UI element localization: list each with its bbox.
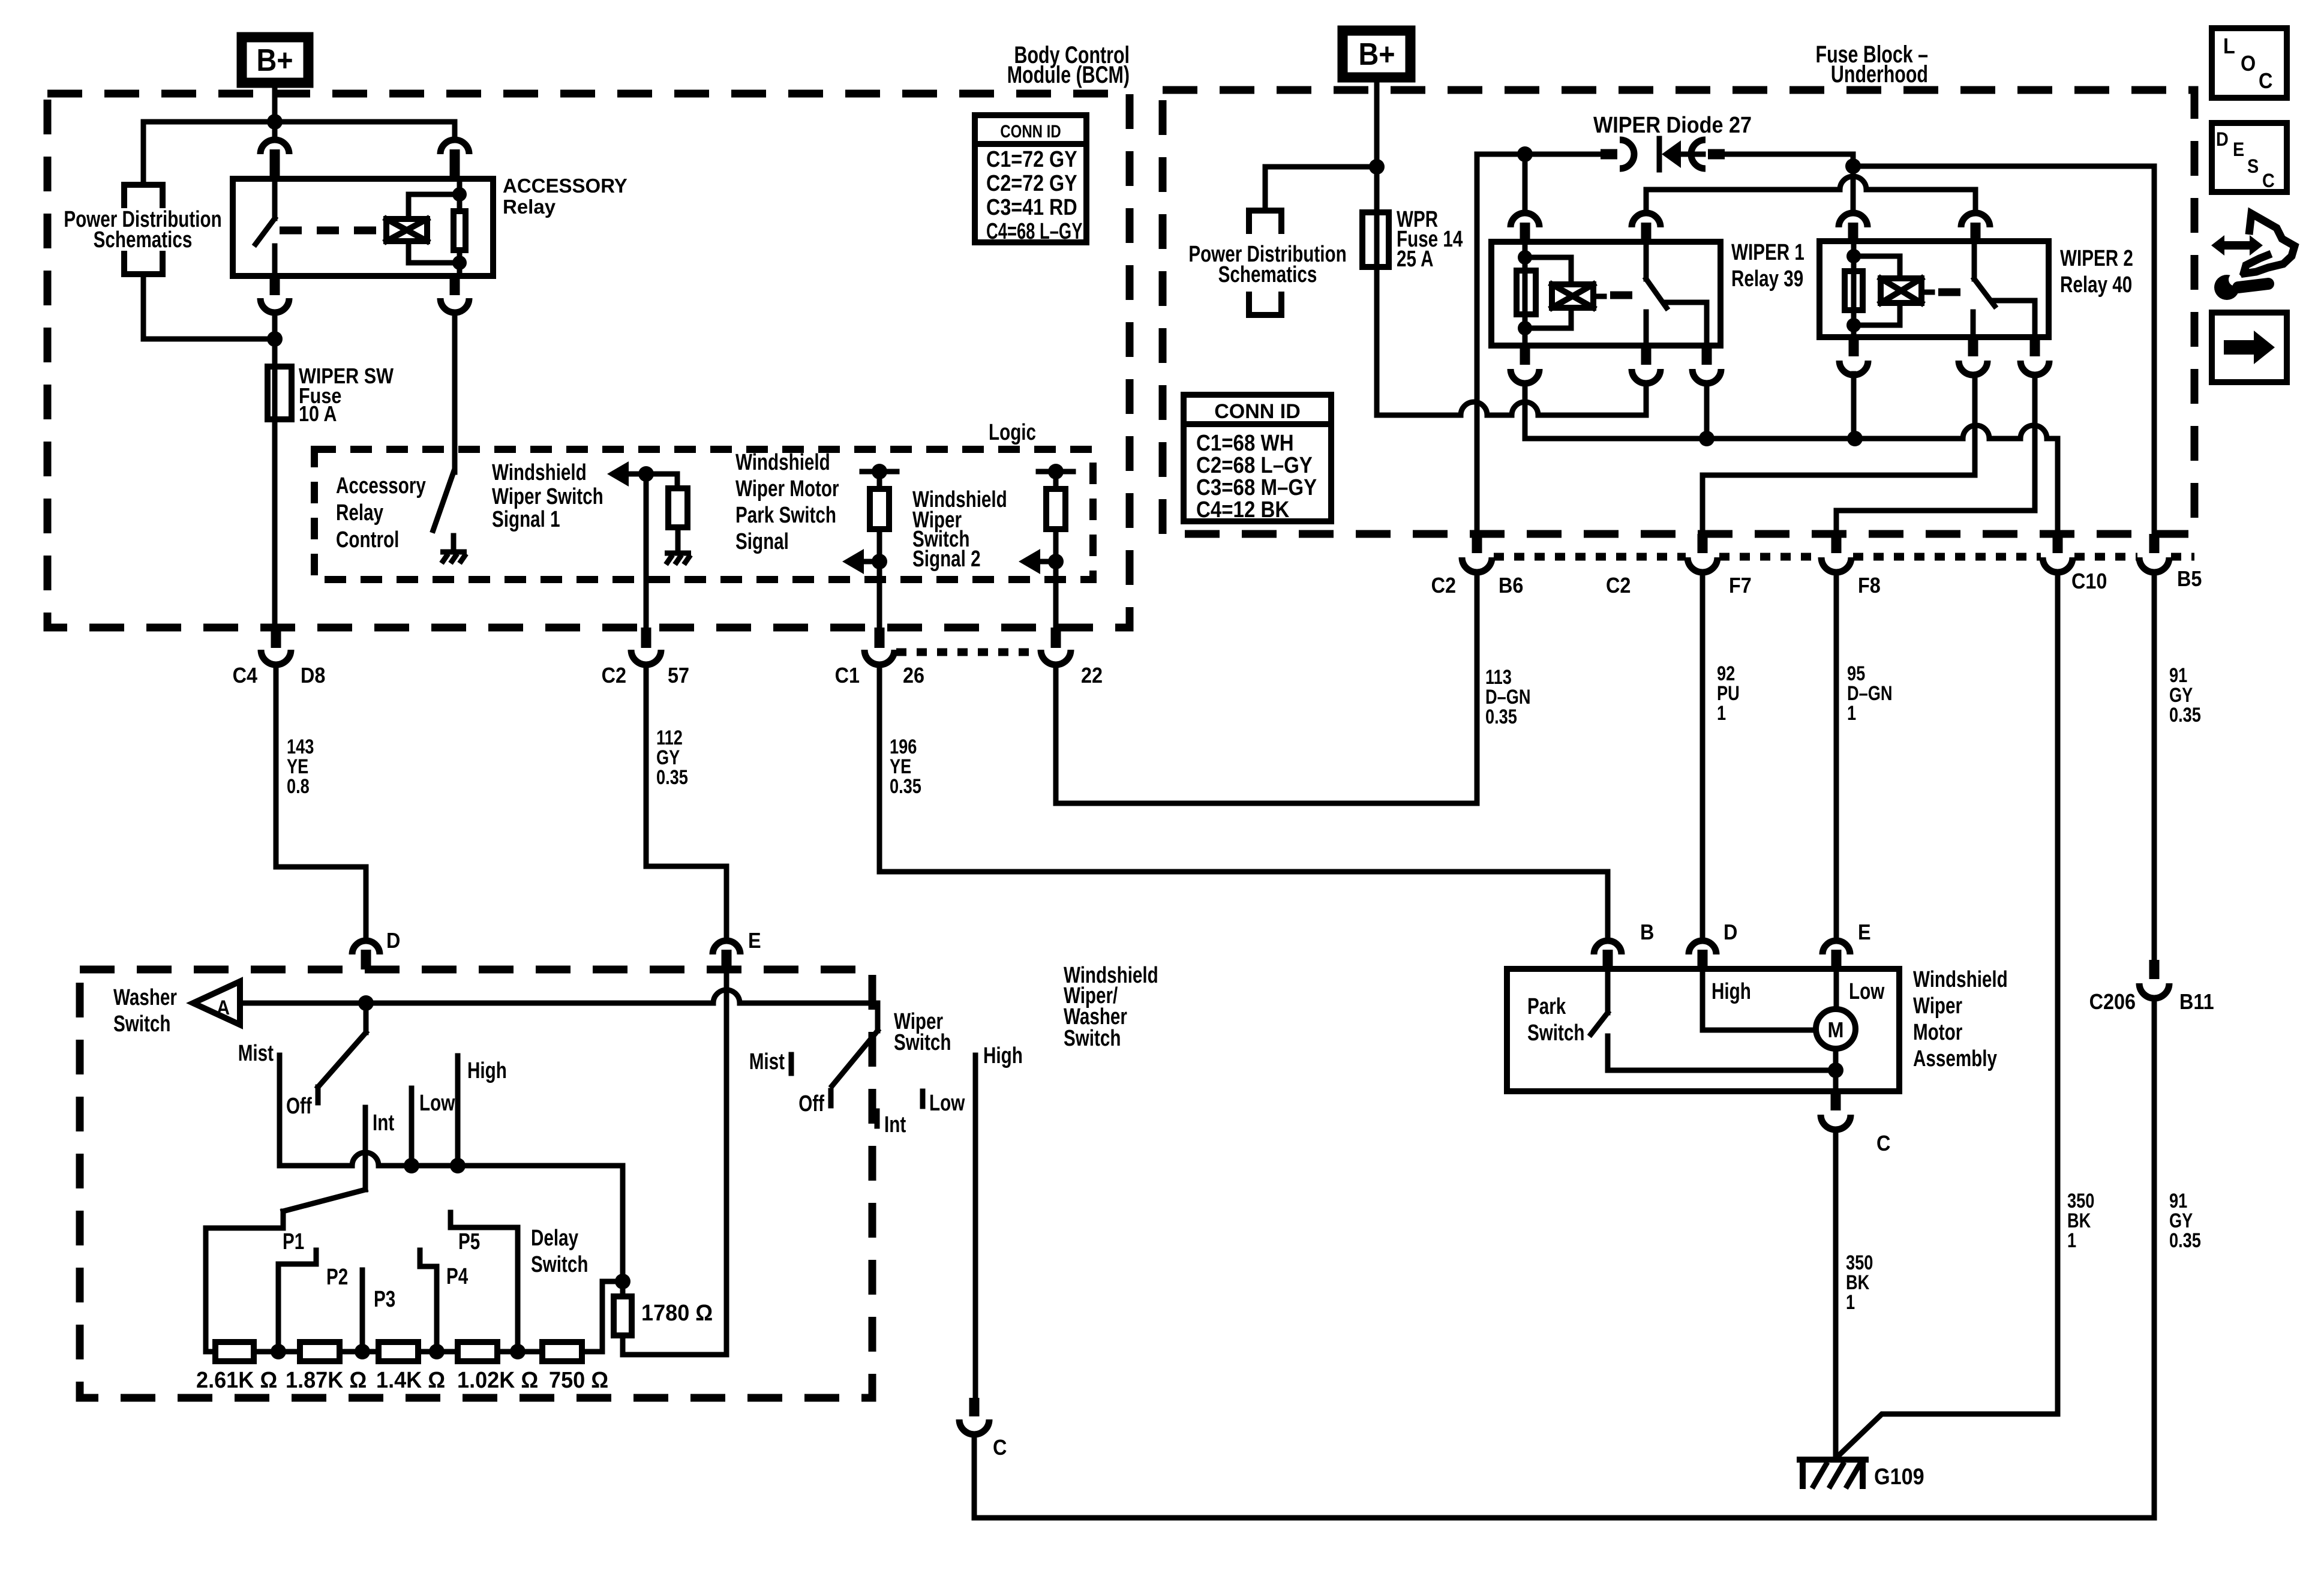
ground accessory relay control <box>440 552 467 563</box>
wire WPR fuse to relay39 switch common <box>1374 267 1380 415</box>
svg-text:Switch: Switch <box>113 1011 170 1037</box>
svg-text:C1: C1 <box>835 664 860 688</box>
svg-text:P5: P5 <box>458 1229 480 1254</box>
wire relay39 switch feed line <box>1646 187 1840 193</box>
node junction relay39 output on bus <box>1699 431 1715 446</box>
power symbol B+ (battery feed, right) <box>1343 31 1410 77</box>
contact P1 hook <box>278 1250 316 1352</box>
svg-text:E: E <box>748 929 761 953</box>
connector D above switch <box>352 941 380 954</box>
pull-up circuit pin 22 top bar <box>1038 469 1073 475</box>
svg-text:Washer: Washer <box>113 985 177 1010</box>
svg-text:Mist: Mist <box>749 1049 785 1074</box>
wire 350 BK 1 from motor C to ground G109 <box>1833 1130 1839 1458</box>
wire motor to C connector <box>1833 1049 1839 1091</box>
accessory relay coil <box>386 219 427 241</box>
svg-text:C2: C2 <box>1431 574 1456 598</box>
svg-text:Signal 1: Signal 1 <box>492 507 560 532</box>
svg-text:G109: G109 <box>1874 1463 1924 1489</box>
svg-text:B5: B5 <box>2177 567 2202 591</box>
svg-text:Wiper Switch: Wiper Switch <box>492 484 603 509</box>
contact Int (right) <box>875 1111 880 1126</box>
resistor 2.61K ladder R1 <box>206 1349 215 1355</box>
node junction pin 22 top <box>1048 464 1064 479</box>
connector pin arcs below relay39 <box>1520 346 1530 365</box>
svg-text:WIPER 2: WIPER 2 <box>2060 246 2133 271</box>
node junction pin 22 arrow <box>1048 554 1064 569</box>
svg-text:D: D <box>1724 920 1737 944</box>
contact Mist (right) <box>789 1055 794 1073</box>
wire right branch to relay coil pin <box>452 122 458 140</box>
svg-text:1.02K Ω: 1.02K Ω <box>457 1367 538 1392</box>
resistor BCM pull-up pin 57 <box>668 488 687 527</box>
connector half left of diode (right side) <box>1691 140 1706 169</box>
connector C10 at fuse block bottom <box>2053 534 2063 553</box>
resistor relay40 coil suppression <box>1845 271 1863 310</box>
wire C10 branch joining ground <box>1837 1414 2058 1457</box>
fuse WPR Fuse 14 25 A <box>1374 167 1380 212</box>
relay WIPER 1 Relay 39 box <box>1491 242 1721 346</box>
svg-text:C2: C2 <box>1606 574 1631 598</box>
relay40 switch <box>1972 241 1977 279</box>
svg-text:C: C <box>2262 170 2275 192</box>
svg-text:C1=72 GY: C1=72 GY <box>986 147 1077 172</box>
fuse WIPER SW 10 A <box>272 339 278 628</box>
contact Low (left) <box>409 1088 415 1166</box>
node junction pin 26 arrow <box>872 554 887 569</box>
svg-text:C: C <box>1876 1131 1890 1155</box>
connector table CONN ID for fuse block <box>1184 395 1331 521</box>
wire ground bus to C10 <box>1525 436 1963 442</box>
svg-text:P4: P4 <box>446 1264 468 1289</box>
relay39 switch <box>1644 242 1649 279</box>
svg-text:CONN ID: CONN ID <box>1000 121 1061 141</box>
contact Int (left) <box>363 1107 368 1190</box>
ground G109 <box>1800 1460 1866 1486</box>
wire Low feed to motor <box>1834 969 1839 1009</box>
svg-text:0.35: 0.35 <box>656 766 688 789</box>
svg-text:B6: B6 <box>1499 574 1523 598</box>
connector pin arc above relay39 switch <box>1632 213 1661 227</box>
relay40 switch output elbow <box>1993 301 2035 337</box>
connector E above switch <box>713 941 740 954</box>
connector row dotted line C1 to 22 <box>896 649 1039 656</box>
accessory relay control dashed link <box>280 227 382 235</box>
node junction relay39 coil bottom <box>1518 321 1532 335</box>
svg-text:1: 1 <box>1847 701 1856 725</box>
node junction D wire and washer line <box>358 995 374 1011</box>
svg-text:P3: P3 <box>374 1287 395 1312</box>
module box Windshield Wiper Motor Assembly <box>1507 969 1899 1091</box>
node junction relay39 coil feed on diode line <box>1517 146 1533 162</box>
svg-text:C206: C206 <box>2089 990 2136 1014</box>
svg-text:Schematics: Schematics <box>1218 262 1317 287</box>
wire High feed inside motor assembly <box>1703 969 1816 1030</box>
svg-text:22: 22 <box>1081 664 1103 688</box>
svg-text:0.35: 0.35 <box>1485 705 1517 728</box>
svg-text:B11: B11 <box>2179 990 2214 1014</box>
svg-text:F8: F8 <box>1858 574 1881 598</box>
resistor 750 ladder R5 <box>542 1342 582 1361</box>
off-page bracket top - Power Distribution (right) <box>1249 211 1281 231</box>
svg-text:C2: C2 <box>602 664 626 688</box>
relay40 coil <box>1854 256 1900 325</box>
svg-text:1.87K Ω: 1.87K Ω <box>286 1367 367 1392</box>
wire relay39 output to bus <box>1704 383 1710 439</box>
svg-text:High: High <box>983 1043 1023 1068</box>
svg-text:Relay 40: Relay 40 <box>2060 272 2132 298</box>
svg-text:Assembly: Assembly <box>1913 1046 1997 1071</box>
node junction relay39 coil top <box>1518 250 1532 265</box>
svg-text:B: B <box>1640 920 1654 944</box>
wire vertical from diode line to B6 connector <box>1475 154 1480 544</box>
svg-text:26: 26 <box>903 664 924 688</box>
wire 92 PU 1 from F7 to connector D of motor <box>1700 572 1706 941</box>
wire switch C output along bottom to B11 <box>974 1434 2154 1518</box>
svg-text:Mist: Mist <box>238 1041 274 1066</box>
svg-text:Park: Park <box>1527 994 1566 1019</box>
svg-text:B+: B+ <box>256 43 293 78</box>
svg-text:0.8: 0.8 <box>287 775 310 798</box>
wire 113 D-GN 0.35 from pin 22 to fuse block B6 <box>1056 572 1477 803</box>
connector table CONN ID for BCM <box>975 115 1086 242</box>
node junction pin 26 top <box>872 464 887 479</box>
svg-text:Switch: Switch <box>531 1252 588 1277</box>
svg-text:Motor: Motor <box>1913 1020 1962 1045</box>
resistor BCM pull-up pin 22 <box>1053 472 1059 489</box>
svg-text:Accessory: Accessory <box>336 473 426 499</box>
wire coil elbows to resistor <box>409 194 460 263</box>
connector E above motor assembly <box>1822 941 1850 954</box>
node junction P2 <box>340 1349 379 1355</box>
connector C2/57 at BCM bottom <box>641 628 651 648</box>
off-page bracket bottom - Power Distribution (right) <box>1249 295 1281 315</box>
svg-text:Off: Off <box>286 1094 312 1119</box>
node junction relay40 coil top <box>1846 249 1861 263</box>
svg-text:C4=68 L–GY: C4=68 L–GY <box>986 219 1082 244</box>
svg-text:Int: Int <box>884 1112 906 1137</box>
connector B5 at fuse block bottom <box>2149 534 2160 553</box>
contact P5 hook <box>451 1212 518 1352</box>
wire 1780 bottom to E line <box>623 1352 726 1358</box>
svg-text:Low: Low <box>1849 979 1885 1004</box>
node junction P4 <box>497 1349 542 1355</box>
wire park switch to motor low node <box>1608 1068 1836 1073</box>
svg-text:Switch: Switch <box>1527 1020 1584 1046</box>
svg-text:C: C <box>993 1436 1007 1460</box>
connector pin arc above relay40 coil <box>1839 213 1867 227</box>
contact High bar (right) down to C <box>973 1055 978 1398</box>
wire 112 GY 0.35 from C2/57 to connector E <box>646 665 726 941</box>
wire junction to B5 drop <box>1853 166 2154 544</box>
connector C4/D8 at BCM bottom <box>271 628 281 648</box>
switch box Windshield Wiper/Washer Switch dashed outline <box>80 969 872 1398</box>
node junction resistor bottom <box>452 256 467 270</box>
svg-text:Relay: Relay <box>503 196 556 218</box>
off-page triangle A to Washer Switch <box>193 981 240 1025</box>
connector C2/F7 at fuse block bottom <box>1698 534 1708 553</box>
contact Off (right) <box>828 1091 834 1106</box>
svg-text:750 Ω: 750 Ω <box>549 1367 608 1392</box>
off-page bracket top - Power Distribution (left) <box>124 185 163 205</box>
svg-text:0.35: 0.35 <box>2169 1229 2201 1252</box>
wire E line vertical through switch <box>724 969 729 1355</box>
relay WIPER 2 Relay 40 box <box>1819 241 2049 337</box>
wire 350 BK 1 from C10 down to ground splice <box>2055 572 2061 1414</box>
connector C at switch bottom <box>969 1398 980 1416</box>
svg-text:C2=72 GY: C2=72 GY <box>986 171 1077 196</box>
svg-text:B+: B+ <box>1358 37 1395 72</box>
connector F8 at fuse block bottom <box>1831 534 1842 553</box>
svg-text:Switch: Switch <box>1064 1026 1121 1051</box>
diode WIPER Diode 27 (cathode bar and arrow) <box>1657 139 1662 170</box>
wire B+ down to junction <box>272 83 278 122</box>
svg-text:Schematics: Schematics <box>94 227 193 253</box>
node junction diode output <box>1845 158 1861 174</box>
sidebar icon LOC box <box>2212 28 2287 98</box>
svg-text:ACCESSORY: ACCESSORY <box>503 175 627 197</box>
wire delay blade contact to ladder start <box>206 1228 283 1352</box>
svg-text:1: 1 <box>1717 701 1726 725</box>
svg-text:WIPER Diode 27: WIPER Diode 27 <box>1593 112 1752 137</box>
svg-text:D: D <box>386 929 400 953</box>
resistor relay39 coil suppression <box>1517 271 1536 314</box>
relay39 switch output elbow <box>1665 302 1707 346</box>
contact High (left) <box>455 1056 461 1166</box>
svg-text:Wiper: Wiper <box>1913 993 1962 1019</box>
svg-text:S: S <box>2247 156 2259 178</box>
svg-text:P2: P2 <box>326 1265 348 1290</box>
svg-text:2.61K Ω: 2.61K Ω <box>196 1367 277 1392</box>
wire down to relay40 switch pin <box>1973 190 1978 213</box>
node junction below B+ (left) <box>267 114 283 130</box>
svg-text:D: D <box>2216 129 2229 151</box>
resistor 1.87K ladder R2 <box>300 1342 340 1361</box>
wire 91 GY 0.35 from B11 down to bottom bus <box>2152 998 2157 1518</box>
wire relay40 coil low to bus <box>1851 374 1857 439</box>
wire branch to power distribution bracket (right) <box>1265 167 1377 211</box>
svg-text:Relay 39: Relay 39 <box>1731 266 1803 292</box>
signal arrow wiper switch signal 1 <box>607 461 629 487</box>
svg-text:Switch: Switch <box>894 1030 951 1055</box>
node junction High on bus <box>450 1158 466 1173</box>
contact P3 hook <box>420 1250 437 1352</box>
relay39 coil dashed link <box>1593 294 1604 299</box>
node junction relay40 coil bottom <box>1846 318 1861 332</box>
ground BCM pin 57 pull-up <box>665 553 691 565</box>
connector C2/B6 at fuse block bottom <box>1472 534 1482 553</box>
relay39 coil <box>1525 257 1571 328</box>
connector B above motor assembly <box>1594 941 1622 954</box>
svg-text:E: E <box>2233 139 2244 161</box>
relay ACCESSORY Relay box <box>233 179 493 276</box>
resistor 1.02K ladder R4 <box>458 1342 497 1361</box>
switch Accessory Relay Control <box>433 472 454 530</box>
wire 143 YE 0.8 from C4/D8 to connector D <box>276 665 366 941</box>
relay40 coil pin vertical <box>1851 241 1857 337</box>
sidebar icon hand with wrench <box>2211 235 2263 256</box>
relay39 coil pin vertical <box>1523 242 1528 346</box>
svg-text:Underhood: Underhood <box>1831 61 1928 88</box>
wire 196 YE 0.35 from C1/26 to connector B <box>879 665 1608 940</box>
connector pin arc above relay39 coil <box>1511 213 1539 227</box>
connector C below motor assembly <box>1831 1091 1841 1110</box>
connector 22 at BCM bottom <box>1051 628 1061 648</box>
wire relay coil low to accessory relay control switch <box>452 313 458 472</box>
node junction relay40 coil low on bus <box>1847 431 1863 446</box>
svg-text:25 A: 25 A <box>1397 247 1433 272</box>
wire relay40 output 1 to F7 <box>1703 375 1975 544</box>
svg-text:P1: P1 <box>283 1229 304 1254</box>
node junction pin 57 pull-up <box>638 466 654 482</box>
svg-text:C10: C10 <box>2071 569 2107 593</box>
svg-text:F7: F7 <box>1729 574 1752 598</box>
off-page bracket bottom - Power Distribution (left) <box>124 254 163 274</box>
svg-text:CONN ID: CONN ID <box>1214 400 1301 423</box>
connector row dotted line at fuse block bottom <box>1494 553 1686 561</box>
node junction P1 <box>254 1349 300 1355</box>
connector half right of diode (left side) <box>1601 149 1617 160</box>
wire relay coil pin vertical <box>457 179 463 276</box>
wire branch down to power distribution bracket <box>141 122 146 185</box>
wire feed bus to relay pins <box>143 119 455 125</box>
svg-text:Logic: Logic <box>989 420 1036 445</box>
svg-text:1: 1 <box>2067 1229 2076 1252</box>
node junction Low on bus <box>404 1158 419 1173</box>
module box Body Control Module dashed outline <box>47 94 1130 628</box>
svg-text:Low: Low <box>929 1091 965 1116</box>
svg-text:C3=41 RD: C3=41 RD <box>986 195 1077 220</box>
power symbol B+ (battery feed, left) <box>242 37 308 83</box>
wire relay39 coil feed down <box>1523 154 1528 213</box>
wire down to relay39 switch pin <box>1644 190 1649 213</box>
svg-text:0.35: 0.35 <box>2169 703 2201 727</box>
svg-text:Windshield: Windshield <box>492 460 587 485</box>
node junction P3 <box>418 1349 458 1355</box>
svg-text:O: O <box>2241 52 2256 76</box>
svg-text:Park Switch: Park Switch <box>735 503 836 528</box>
wire B+ down to junction <box>1374 77 1380 167</box>
wire relay39 coil low to ground bus <box>1523 383 1528 439</box>
svg-text:Windshield: Windshield <box>1913 967 2008 992</box>
node junction below B+ (right) <box>1369 159 1385 175</box>
resistor accessory relay coil suppression <box>454 211 466 250</box>
resistor 1.4K ladder R3 <box>379 1342 418 1361</box>
logic box dashed outline <box>314 449 1093 580</box>
wire common bus of left wiper switch <box>280 1163 352 1169</box>
wire 91 GY 0.35 from B5 down to C206/B11 <box>2152 572 2157 960</box>
switch blade from D (left wiper switch) <box>364 1003 369 1032</box>
signal arrow wiper switch signal 2 pin 26 <box>864 559 879 565</box>
connector pin arc above accessory relay coil pin <box>440 140 469 154</box>
resistor BCM pull-up pin 26 <box>877 472 882 489</box>
svg-text:57: 57 <box>668 664 689 688</box>
wire diode to relay 40 coil junction <box>1725 154 1853 166</box>
svg-text:Wiper Motor: Wiper Motor <box>735 476 839 502</box>
wire bracket bottom to fuse junction <box>143 274 275 339</box>
svg-text:High: High <box>467 1058 507 1083</box>
wire pin 57 to connector <box>644 474 649 628</box>
svg-text:1780 Ω: 1780 Ω <box>641 1299 713 1325</box>
svg-text:E: E <box>1858 920 1871 944</box>
svg-text:Signal 2: Signal 2 <box>912 547 981 572</box>
node junction motor low and park switch <box>1828 1062 1843 1078</box>
svg-text:10 A: 10 A <box>299 403 337 427</box>
signal arrow wiper switch signal 2 pin 22 <box>1040 559 1056 565</box>
svg-text:Delay: Delay <box>531 1226 578 1251</box>
wire diode feed line from B6 riser <box>1477 152 1601 157</box>
svg-text:A: A <box>217 996 230 1019</box>
node junction above WIPER SW fuse <box>267 331 283 347</box>
svg-text:Int: Int <box>373 1110 394 1136</box>
svg-text:1: 1 <box>1846 1290 1855 1314</box>
contact Low (right) <box>920 1091 926 1106</box>
svg-text:High: High <box>1712 979 1751 1004</box>
resistor 1780 ohm <box>620 1281 626 1296</box>
wire relay40 output 2 to F8 <box>1836 375 2035 544</box>
svg-text:Module (BCM): Module (BCM) <box>1007 61 1130 88</box>
wire washer line from triangle to wiper switch blade <box>240 1001 713 1006</box>
svg-text:1.4K Ω: 1.4K Ω <box>376 1367 445 1392</box>
svg-text:Off: Off <box>798 1091 824 1116</box>
contact Mist (left) <box>277 1055 283 1166</box>
connector D above motor assembly <box>1689 941 1716 954</box>
connector C1/26 at BCM bottom <box>875 628 885 648</box>
svg-text:D8: D8 <box>301 664 325 688</box>
svg-text:C4: C4 <box>233 664 257 688</box>
svg-text:C4=12 BK: C4=12 BK <box>1196 497 1290 523</box>
node junction resistor top <box>452 187 467 202</box>
connector C206/B11 inline <box>2149 960 2160 979</box>
switch Park Switch <box>1605 969 1611 1013</box>
svg-text:Relay: Relay <box>336 500 383 526</box>
svg-text:Windshield: Windshield <box>735 450 830 475</box>
node junction top of 1780 resistor <box>615 1274 630 1289</box>
svg-text:L: L <box>2223 34 2235 58</box>
svg-text:WIPER 1: WIPER 1 <box>1731 240 1804 265</box>
pull-up circuit pin 26 top bar <box>862 469 897 475</box>
sidebar icon DESC box <box>2212 123 2287 192</box>
sidebar icon arrow box <box>2212 313 2287 382</box>
accessory relay switch <box>272 179 278 218</box>
wire ladder end riser to 1780 junction <box>582 1281 623 1352</box>
module box Fuse Block - Underhood dashed outline <box>1163 90 2194 534</box>
wire 95 D-GN 1 from F8 to connector E of motor <box>1834 572 1839 941</box>
connector pin arc below relay coil low side <box>450 276 460 295</box>
svg-text:Signal: Signal <box>735 529 789 554</box>
wire junction down to relay 40 coil pin <box>1851 166 1856 213</box>
connector pin arc above accessory relay switch pin <box>272 122 278 140</box>
svg-text:Low: Low <box>419 1091 455 1116</box>
switch blade wiper switch (right) <box>875 1003 881 1031</box>
contact P2 <box>360 1270 365 1352</box>
svg-text:0.35: 0.35 <box>890 775 921 798</box>
switch blade delay switch <box>283 1190 365 1211</box>
motor M windshield wiper motor <box>1816 1009 1855 1049</box>
connector pin arc above relay40 switch <box>1961 213 1990 227</box>
svg-text:C: C <box>2259 69 2272 93</box>
connector pin arc below relay switch output <box>270 276 280 295</box>
svg-text:M: M <box>1828 1018 1844 1042</box>
svg-text:Control: Control <box>336 527 399 553</box>
relay40 coil dashed link <box>1921 290 1932 295</box>
connector pin arcs below relay40 <box>1849 337 1859 356</box>
